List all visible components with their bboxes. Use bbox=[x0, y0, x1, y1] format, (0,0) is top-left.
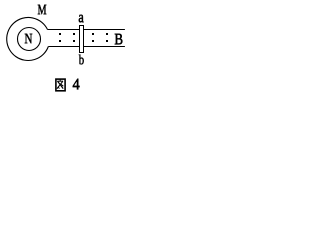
label a bbox=[79, 15, 84, 22]
magnet M outer body (circle open on right into tube) bbox=[7, 17, 49, 60]
field dot 1 top bbox=[59, 33, 61, 35]
conducting rod ab bbox=[80, 26, 84, 53]
pole N inner circle bbox=[18, 28, 41, 51]
wire tube bottom line bbox=[48, 46, 125, 48]
field dot 2 bottom bbox=[73, 40, 75, 42]
field dot 3 top bbox=[92, 33, 94, 35]
caption number 4 bbox=[73, 79, 80, 89]
label B field bbox=[115, 34, 123, 44]
field dot 2 top bbox=[73, 33, 75, 35]
wire tube top line bbox=[48, 29, 125, 31]
caption glyph 图 bbox=[56, 79, 65, 91]
field dot 1 bottom bbox=[59, 40, 61, 42]
label b bbox=[79, 55, 84, 65]
label M bbox=[38, 5, 46, 14]
label N bbox=[25, 34, 32, 43]
field dot 3 bottom bbox=[92, 40, 94, 42]
field dot 4 bottom bbox=[106, 40, 108, 42]
field dot 4 top bbox=[106, 33, 108, 35]
